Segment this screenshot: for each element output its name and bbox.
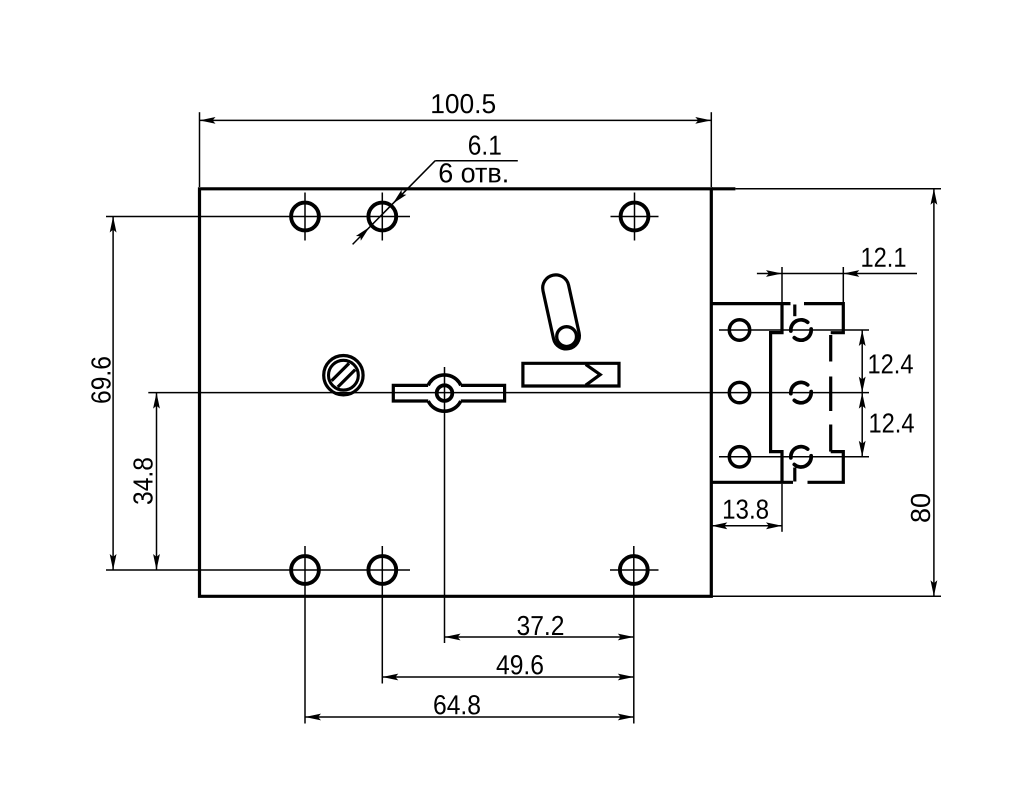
svg-text:69.6: 69.6 xyxy=(86,356,117,404)
svg-text:80: 80 xyxy=(905,493,936,523)
svg-text:12.4: 12.4 xyxy=(867,348,913,379)
svg-text:12.4: 12.4 xyxy=(868,407,914,438)
svg-text:100.5: 100.5 xyxy=(430,88,496,119)
svg-text:37.2: 37.2 xyxy=(516,610,564,641)
svg-text:6 отв.: 6 отв. xyxy=(438,157,509,188)
svg-text:34.8: 34.8 xyxy=(128,457,159,505)
svg-text:13.8: 13.8 xyxy=(722,494,769,525)
svg-text:64.8: 64.8 xyxy=(433,689,481,720)
svg-text:49.6: 49.6 xyxy=(496,649,544,680)
svg-text:6.1: 6.1 xyxy=(468,130,502,161)
svg-text:12.1: 12.1 xyxy=(860,242,906,273)
